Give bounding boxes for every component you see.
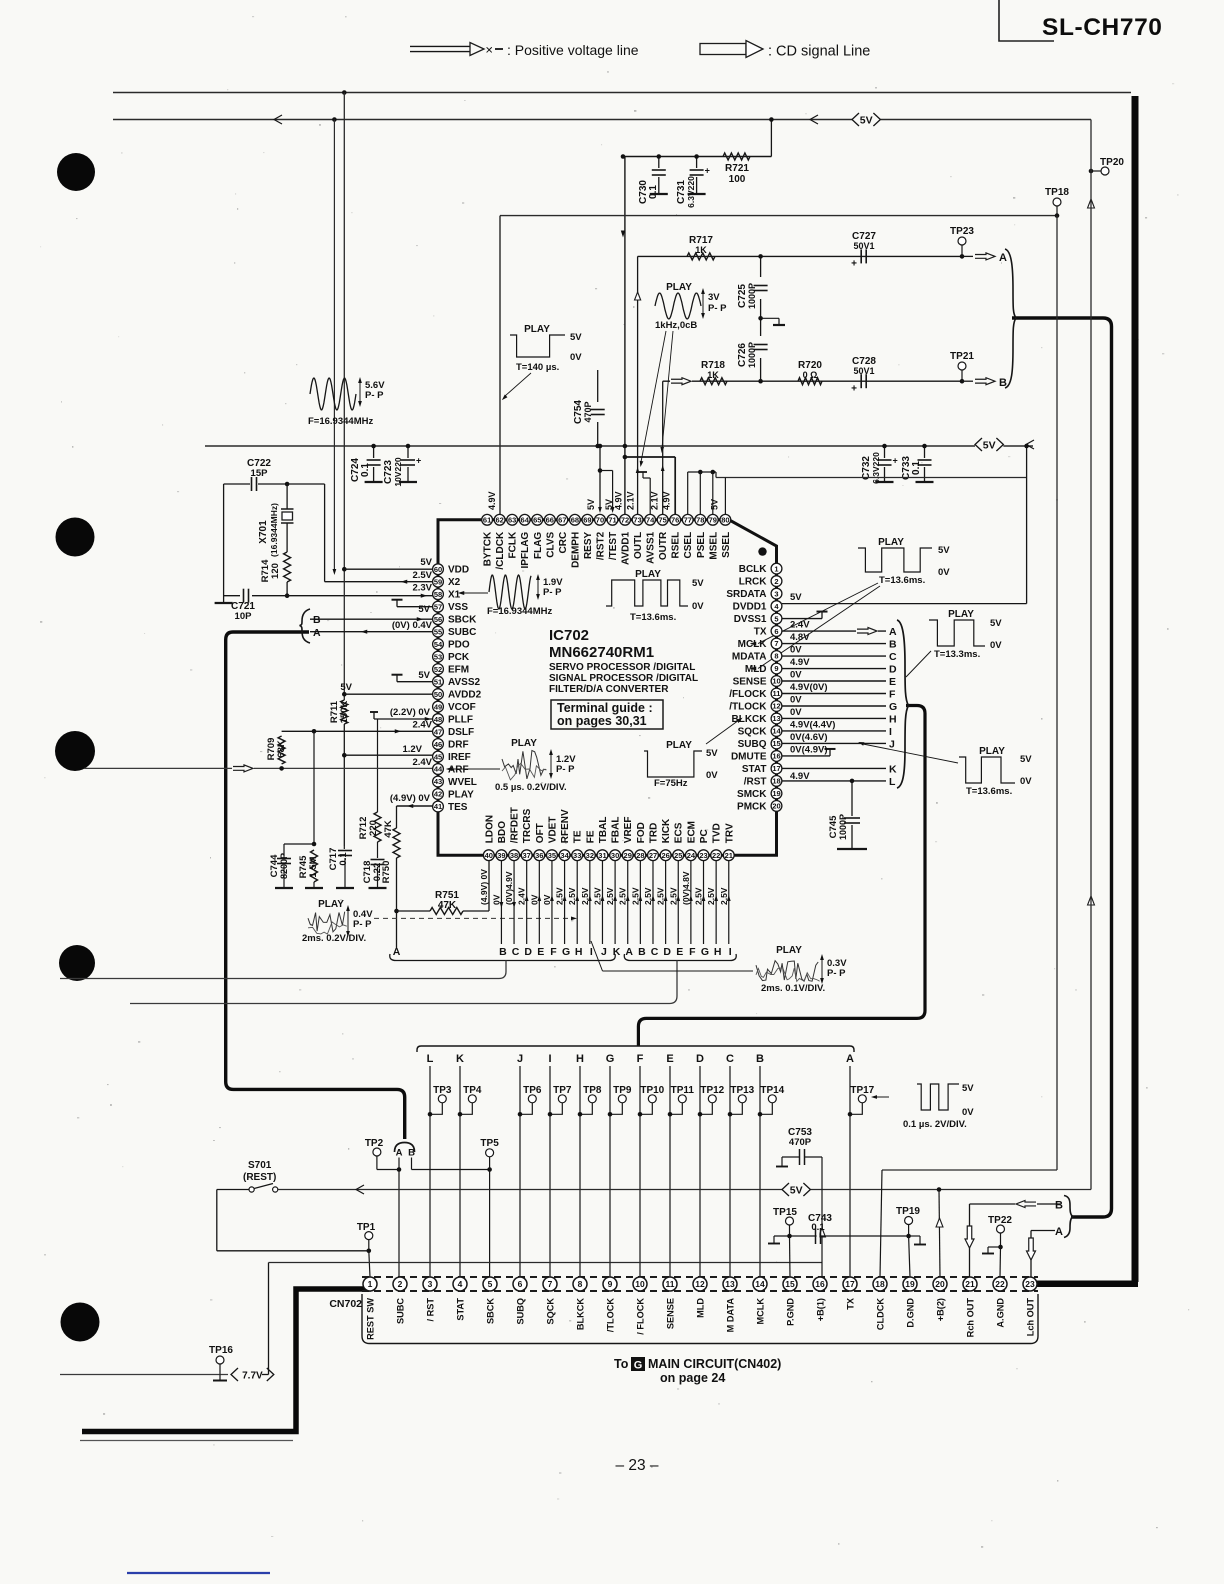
svg-text:63: 63 bbox=[508, 516, 516, 525]
svg-text:TRV: TRV bbox=[724, 823, 735, 843]
svg-text:I: I bbox=[889, 726, 892, 738]
svg-text:5V: 5V bbox=[710, 499, 720, 510]
svg-text:CLVS: CLVS bbox=[545, 531, 556, 557]
svg-text:ARF: ARF bbox=[448, 765, 469, 776]
svg-text:4.9V: 4.9V bbox=[614, 491, 624, 510]
svg-text:60: 60 bbox=[434, 565, 442, 574]
svg-text:74: 74 bbox=[646, 516, 655, 525]
svg-text:/CLDCK: /CLDCK bbox=[495, 531, 506, 570]
svg-text:66: 66 bbox=[546, 516, 554, 525]
svg-text:C: C bbox=[651, 946, 659, 958]
svg-text:EFM: EFM bbox=[448, 665, 469, 676]
svg-text:5V: 5V bbox=[420, 557, 432, 568]
svg-text:2: 2 bbox=[398, 1279, 403, 1289]
svg-text:5V: 5V bbox=[604, 499, 614, 510]
svg-text:5V: 5V bbox=[570, 332, 582, 343]
svg-text:73: 73 bbox=[633, 516, 641, 525]
svg-text:T=13.6ms.: T=13.6ms. bbox=[966, 786, 1012, 797]
svg-text:H: H bbox=[576, 1053, 584, 1065]
svg-text:X701: X701 bbox=[258, 520, 269, 544]
svg-text:5V: 5V bbox=[418, 670, 430, 681]
svg-text:TP9: TP9 bbox=[613, 1085, 632, 1096]
svg-text:5V: 5V bbox=[790, 592, 802, 603]
svg-text:0V: 0V bbox=[790, 670, 802, 681]
svg-text:10: 10 bbox=[772, 677, 780, 686]
svg-text:F: F bbox=[889, 689, 896, 701]
svg-text:B: B bbox=[756, 1053, 764, 1065]
svg-text:SRDATA: SRDATA bbox=[726, 589, 766, 600]
svg-text:2.4V: 2.4V bbox=[412, 757, 432, 768]
svg-text:+B(2): +B(2) bbox=[936, 1298, 946, 1321]
svg-text:52: 52 bbox=[434, 665, 442, 674]
svg-text:0V: 0V bbox=[491, 894, 501, 905]
svg-text:16: 16 bbox=[815, 1279, 825, 1289]
svg-text:2.4V: 2.4V bbox=[517, 887, 527, 905]
svg-text:SL-CH770: SL-CH770 bbox=[1042, 14, 1163, 41]
svg-text:P- P: P- P bbox=[708, 303, 727, 314]
svg-text:D.GND: D.GND bbox=[906, 1298, 916, 1328]
svg-text:5V: 5V bbox=[860, 114, 873, 126]
svg-text:PLAY: PLAY bbox=[666, 282, 692, 293]
svg-text:5: 5 bbox=[774, 614, 778, 623]
svg-text:LDON: LDON bbox=[484, 815, 495, 843]
svg-text:Lch OUT: Lch OUT bbox=[1026, 1298, 1036, 1337]
svg-text:SUBQ: SUBQ bbox=[738, 739, 767, 750]
svg-text:25: 25 bbox=[674, 851, 682, 860]
svg-text:54: 54 bbox=[434, 640, 443, 649]
svg-text:/RST2: /RST2 bbox=[595, 531, 606, 560]
svg-text:2.5V: 2.5V bbox=[555, 887, 565, 905]
svg-text:4.9V(0V): 4.9V(0V) bbox=[790, 682, 828, 693]
svg-text:KICK: KICK bbox=[661, 818, 672, 843]
svg-text:34: 34 bbox=[560, 851, 569, 860]
svg-text:MDATA: MDATA bbox=[732, 652, 767, 663]
svg-text:0V: 0V bbox=[1020, 776, 1032, 787]
svg-text:TES: TES bbox=[448, 802, 468, 813]
svg-text:H: H bbox=[575, 946, 583, 958]
svg-text:TRCRS: TRCRS bbox=[522, 808, 533, 843]
svg-text:BCLK: BCLK bbox=[739, 564, 768, 575]
svg-text:36: 36 bbox=[535, 851, 543, 860]
svg-text:+: + bbox=[893, 456, 898, 466]
svg-text:8: 8 bbox=[578, 1279, 583, 1289]
svg-text:4.9V(4.4V): 4.9V(4.4V) bbox=[790, 719, 835, 730]
svg-text:(REST): (REST) bbox=[243, 1172, 276, 1183]
svg-text:0V: 0V bbox=[990, 640, 1002, 651]
svg-text:56: 56 bbox=[434, 615, 442, 624]
svg-text:61: 61 bbox=[483, 516, 491, 525]
svg-text:A: A bbox=[313, 627, 321, 639]
svg-text:To: To bbox=[614, 1357, 629, 1371]
svg-text:TP23: TP23 bbox=[950, 226, 974, 237]
svg-text:49: 49 bbox=[434, 702, 442, 711]
svg-text:PLAY: PLAY bbox=[666, 740, 692, 751]
svg-text:/RFDET: /RFDET bbox=[510, 807, 521, 843]
svg-text:(0V) 0.4V: (0V) 0.4V bbox=[392, 620, 433, 631]
svg-text:77: 77 bbox=[684, 516, 692, 525]
svg-text:19: 19 bbox=[772, 789, 780, 798]
svg-text:47K: 47K bbox=[438, 900, 457, 911]
svg-text:T=13.6ms.: T=13.6ms. bbox=[879, 575, 925, 586]
svg-text:2ms. 0.1V/DIV.: 2ms. 0.1V/DIV. bbox=[761, 983, 825, 994]
svg-text:11: 11 bbox=[773, 689, 781, 698]
svg-text:G: G bbox=[701, 946, 709, 958]
svg-text:72: 72 bbox=[621, 516, 629, 525]
svg-text:PLAY: PLAY bbox=[448, 790, 474, 801]
svg-text:14: 14 bbox=[772, 727, 781, 736]
svg-text:+: + bbox=[416, 456, 421, 466]
svg-text:2ms. 0.2V/DIV.: 2ms. 0.2V/DIV. bbox=[302, 933, 366, 944]
svg-text:PLAY: PLAY bbox=[776, 945, 802, 956]
svg-text:VCOF: VCOF bbox=[448, 702, 476, 713]
svg-text:B: B bbox=[638, 946, 646, 958]
svg-text:19: 19 bbox=[905, 1279, 915, 1289]
svg-text:2.5V: 2.5V bbox=[694, 887, 704, 905]
svg-text:55: 55 bbox=[434, 627, 442, 636]
svg-text:G: G bbox=[606, 1053, 615, 1065]
svg-text:13: 13 bbox=[772, 714, 780, 723]
svg-text:47: 47 bbox=[434, 727, 442, 736]
svg-text:64: 64 bbox=[521, 516, 530, 525]
svg-text:on pages 30,31: on pages 30,31 bbox=[557, 714, 647, 728]
svg-text:VSS: VSS bbox=[448, 602, 468, 613]
svg-text:VREF: VREF bbox=[623, 817, 634, 844]
svg-text:1000P: 1000P bbox=[747, 283, 757, 309]
svg-text:2.4V: 2.4V bbox=[790, 620, 810, 631]
svg-text:20: 20 bbox=[935, 1279, 945, 1289]
svg-text:2.5V: 2.5V bbox=[567, 887, 577, 905]
svg-text:TP19: TP19 bbox=[896, 1206, 920, 1217]
svg-text:2.5V: 2.5V bbox=[580, 887, 590, 905]
svg-text:5V: 5V bbox=[938, 545, 950, 556]
svg-text:TP6: TP6 bbox=[523, 1085, 542, 1096]
svg-text:G: G bbox=[634, 1360, 643, 1372]
svg-text:H: H bbox=[714, 946, 722, 958]
svg-text:DEMPH: DEMPH bbox=[570, 532, 581, 568]
svg-text:PLLF: PLLF bbox=[448, 715, 473, 726]
svg-text:9: 9 bbox=[774, 664, 778, 673]
svg-text:K: K bbox=[613, 946, 621, 958]
svg-text:FILTER/D/A CONVERTER: FILTER/D/A CONVERTER bbox=[549, 684, 669, 695]
svg-text:15: 15 bbox=[772, 739, 780, 748]
svg-text:CLDCK: CLDCK bbox=[876, 1298, 886, 1331]
svg-text:4.8V: 4.8V bbox=[790, 632, 810, 643]
svg-text:DVSS1: DVSS1 bbox=[734, 614, 767, 625]
svg-text:T=13.6ms.: T=13.6ms. bbox=[630, 612, 676, 623]
svg-text:C: C bbox=[726, 1053, 734, 1065]
svg-text:(0V)4.8V: (0V)4.8V bbox=[681, 871, 691, 905]
svg-text:10: 10 bbox=[635, 1279, 645, 1289]
svg-text:75: 75 bbox=[658, 516, 666, 525]
svg-text:PLAY: PLAY bbox=[979, 746, 1005, 757]
svg-text:0V: 0V bbox=[542, 894, 552, 905]
svg-text:470P: 470P bbox=[583, 401, 593, 422]
svg-text:A: A bbox=[625, 946, 633, 958]
svg-text:1: 1 bbox=[368, 1279, 373, 1289]
svg-text:TP22: TP22 bbox=[988, 1215, 1012, 1226]
svg-text:F: F bbox=[637, 1053, 644, 1065]
svg-text:1000P: 1000P bbox=[838, 814, 848, 840]
svg-text:2.1V: 2.1V bbox=[626, 491, 636, 510]
svg-text:2.4V: 2.4V bbox=[412, 720, 432, 731]
svg-text:DVDD1: DVDD1 bbox=[733, 602, 767, 613]
svg-text:6: 6 bbox=[774, 627, 778, 636]
svg-text:P- P: P- P bbox=[353, 919, 372, 930]
svg-text:VDD: VDD bbox=[448, 565, 469, 576]
svg-text:SERVO PROCESSOR /DIGITAL: SERVO PROCESSOR /DIGITAL bbox=[549, 662, 695, 673]
svg-text:H: H bbox=[889, 713, 897, 725]
svg-text:14: 14 bbox=[755, 1279, 765, 1289]
svg-text:A: A bbox=[846, 1053, 854, 1065]
svg-text:B: B bbox=[499, 946, 507, 958]
svg-text:TP5: TP5 bbox=[480, 1138, 499, 1149]
svg-text:30: 30 bbox=[611, 851, 619, 860]
svg-text:220: 220 bbox=[368, 820, 379, 836]
svg-text:51: 51 bbox=[434, 677, 442, 686]
svg-text:22: 22 bbox=[712, 851, 720, 860]
svg-text:18: 18 bbox=[875, 1279, 885, 1289]
svg-text:SBCK: SBCK bbox=[486, 1298, 496, 1324]
svg-text:3V: 3V bbox=[708, 292, 720, 303]
svg-text:4.9V: 4.9V bbox=[790, 657, 810, 668]
svg-text:/TEST: /TEST bbox=[608, 532, 619, 560]
svg-text:0.1: 0.1 bbox=[648, 185, 659, 199]
svg-text:0V(4.6V): 0V(4.6V) bbox=[790, 732, 828, 743]
svg-text:+B(1): +B(1) bbox=[816, 1298, 826, 1321]
svg-text:E: E bbox=[666, 1053, 673, 1065]
svg-text:0.1: 0.1 bbox=[811, 1222, 825, 1233]
svg-text:IREF: IREF bbox=[448, 752, 471, 763]
svg-text:F=16.9344MHz: F=16.9344MHz bbox=[487, 606, 552, 617]
svg-text:27: 27 bbox=[649, 851, 657, 860]
svg-text:STAT: STAT bbox=[742, 764, 767, 775]
svg-text:38: 38 bbox=[510, 851, 518, 860]
svg-text:J: J bbox=[517, 1053, 523, 1065]
svg-text:41: 41 bbox=[434, 802, 442, 811]
svg-text:80: 80 bbox=[721, 516, 729, 525]
svg-text:4.9V: 4.9V bbox=[661, 491, 671, 510]
svg-text:120: 120 bbox=[270, 563, 281, 579]
svg-text:17: 17 bbox=[845, 1279, 855, 1289]
svg-text:SSEL: SSEL bbox=[721, 532, 732, 558]
svg-text:(16.9344MHz): (16.9344MHz) bbox=[269, 503, 279, 557]
svg-text:FBAL: FBAL bbox=[611, 817, 622, 844]
svg-text:15P: 15P bbox=[251, 468, 269, 479]
svg-text:✕: ✕ bbox=[485, 46, 493, 57]
svg-text:MCLK: MCLK bbox=[756, 1298, 766, 1325]
svg-text:18: 18 bbox=[772, 777, 780, 786]
svg-text:46: 46 bbox=[434, 740, 442, 749]
svg-text:2.5V: 2.5V bbox=[630, 887, 640, 905]
svg-text:C: C bbox=[889, 651, 897, 663]
svg-text:TP17: TP17 bbox=[850, 1085, 874, 1096]
svg-text:5V: 5V bbox=[962, 1083, 974, 1094]
svg-text:TX: TX bbox=[754, 627, 767, 638]
svg-text:31: 31 bbox=[598, 851, 606, 860]
svg-text:2.5V: 2.5V bbox=[719, 887, 729, 905]
svg-text:1000P: 1000P bbox=[747, 342, 757, 368]
svg-text:69: 69 bbox=[583, 516, 591, 525]
svg-text:IC702: IC702 bbox=[549, 627, 589, 644]
svg-text:TRD: TRD bbox=[648, 823, 659, 844]
svg-text:15: 15 bbox=[785, 1279, 795, 1289]
svg-text:5V: 5V bbox=[340, 682, 352, 693]
svg-text:5V: 5V bbox=[990, 618, 1002, 629]
svg-text:59: 59 bbox=[434, 577, 442, 586]
svg-text:1.5M: 1.5M bbox=[308, 856, 319, 877]
svg-text:D: D bbox=[889, 664, 897, 676]
svg-text:E: E bbox=[676, 946, 683, 958]
svg-text:5V: 5V bbox=[706, 748, 718, 759]
svg-text:50V1: 50V1 bbox=[853, 366, 874, 376]
svg-text:53: 53 bbox=[434, 652, 442, 661]
svg-text:OUTR: OUTR bbox=[658, 531, 669, 560]
svg-text:6.3V220: 6.3V220 bbox=[871, 452, 881, 484]
svg-text:0.5 µs. 0.2V/DIV.: 0.5 µs. 0.2V/DIV. bbox=[495, 782, 567, 793]
svg-text:(0V)4.9V: (0V)4.9V bbox=[504, 871, 514, 905]
svg-text:M DATA: M DATA bbox=[726, 1298, 736, 1333]
svg-text:RESY: RESY bbox=[583, 531, 594, 559]
svg-text:/TLOCK: /TLOCK bbox=[729, 701, 767, 712]
svg-text:FLAG: FLAG bbox=[533, 532, 544, 559]
svg-text:S701: S701 bbox=[248, 1160, 272, 1171]
svg-text:PDO: PDO bbox=[448, 640, 470, 651]
svg-text:SUBC: SUBC bbox=[396, 1298, 406, 1324]
svg-text:PLAY: PLAY bbox=[878, 537, 904, 548]
svg-text:SBCK: SBCK bbox=[448, 615, 477, 626]
svg-text:1.2V: 1.2V bbox=[402, 744, 422, 755]
svg-text:P- P: P- P bbox=[365, 390, 384, 401]
svg-text:67: 67 bbox=[558, 516, 566, 525]
svg-text:PSEL: PSEL bbox=[696, 532, 707, 558]
svg-text:2.5V: 2.5V bbox=[618, 887, 628, 905]
svg-text:0V: 0V bbox=[938, 567, 950, 578]
svg-text:0V: 0V bbox=[692, 601, 704, 612]
svg-text:MN662740RM1: MN662740RM1 bbox=[549, 644, 654, 661]
svg-text:A: A bbox=[393, 946, 401, 958]
svg-text:TP18: TP18 bbox=[1045, 187, 1069, 198]
svg-text:DRF: DRF bbox=[448, 740, 469, 751]
svg-text:TP20: TP20 bbox=[1100, 157, 1124, 168]
svg-text:TE: TE bbox=[573, 830, 584, 843]
svg-text:RFENV: RFENV bbox=[560, 809, 571, 843]
svg-text:62: 62 bbox=[495, 516, 503, 525]
svg-text:X1: X1 bbox=[448, 590, 461, 601]
svg-text:0V: 0V bbox=[790, 694, 802, 705]
svg-text:0V: 0V bbox=[529, 894, 539, 905]
svg-text:J: J bbox=[889, 738, 895, 750]
svg-text:1K: 1K bbox=[707, 370, 719, 380]
svg-text:I: I bbox=[548, 1053, 551, 1065]
svg-text:D: D bbox=[696, 1053, 704, 1065]
svg-text:2.5V: 2.5V bbox=[605, 887, 615, 905]
svg-text:B: B bbox=[313, 614, 321, 626]
svg-text:5V: 5V bbox=[692, 578, 704, 589]
svg-text:21: 21 bbox=[725, 851, 733, 860]
svg-text:Terminal guide :: Terminal guide : bbox=[557, 701, 653, 715]
svg-text:SENSE: SENSE bbox=[666, 1298, 676, 1329]
svg-text:17: 17 bbox=[772, 764, 780, 773]
svg-text:A: A bbox=[396, 1148, 403, 1159]
svg-text:A: A bbox=[999, 252, 1007, 264]
svg-text:TP2: TP2 bbox=[365, 1138, 384, 1149]
svg-text:5V: 5V bbox=[790, 1184, 803, 1196]
svg-text:SENSE: SENSE bbox=[733, 677, 767, 688]
svg-text:4: 4 bbox=[458, 1279, 463, 1289]
svg-text:65: 65 bbox=[533, 516, 541, 525]
svg-text:PLAY: PLAY bbox=[635, 569, 661, 580]
svg-text:CSEL: CSEL bbox=[683, 532, 694, 559]
svg-text:1kHz,0cB: 1kHz,0cB bbox=[655, 320, 697, 331]
svg-text:D: D bbox=[663, 946, 671, 958]
svg-text:24: 24 bbox=[687, 851, 696, 860]
svg-text:C: C bbox=[512, 946, 520, 958]
svg-text:AVDD2: AVDD2 bbox=[448, 690, 482, 701]
svg-text:5V: 5V bbox=[983, 439, 996, 451]
svg-text:5V: 5V bbox=[418, 604, 430, 615]
svg-text:E: E bbox=[537, 946, 544, 958]
svg-text:0.1: 0.1 bbox=[338, 852, 349, 866]
svg-text:42: 42 bbox=[434, 790, 442, 799]
svg-text:P- P: P- P bbox=[556, 764, 575, 775]
svg-text:PLAY: PLAY bbox=[948, 609, 974, 620]
svg-text:1: 1 bbox=[774, 564, 778, 573]
svg-text:G: G bbox=[562, 946, 570, 958]
svg-text:79: 79 bbox=[709, 516, 717, 525]
svg-text:10V220: 10V220 bbox=[393, 457, 403, 487]
svg-text:E: E bbox=[889, 676, 896, 688]
svg-text:13: 13 bbox=[725, 1279, 735, 1289]
svg-text:K: K bbox=[456, 1053, 464, 1065]
svg-text:+: + bbox=[705, 166, 710, 176]
svg-text:SIGNAL PROCESSOR /DIGITAL: SIGNAL PROCESSOR /DIGITAL bbox=[549, 673, 698, 684]
svg-text:150K: 150K bbox=[339, 701, 350, 724]
svg-text:50V1: 50V1 bbox=[853, 241, 874, 251]
svg-text:MSEL: MSEL bbox=[708, 532, 719, 560]
svg-text:0.1 µs. 2V/DIV.: 0.1 µs. 2V/DIV. bbox=[903, 1119, 967, 1130]
svg-text:1K: 1K bbox=[695, 245, 707, 255]
svg-text:PC: PC bbox=[699, 829, 710, 843]
svg-text:SQCK: SQCK bbox=[738, 726, 768, 737]
svg-text:TP4: TP4 bbox=[463, 1085, 482, 1096]
svg-text:FE: FE bbox=[585, 830, 596, 843]
svg-text:A: A bbox=[1055, 1226, 1063, 1238]
svg-text:2.5V: 2.5V bbox=[656, 887, 666, 905]
svg-text:0V: 0V bbox=[962, 1107, 974, 1118]
svg-text:+: + bbox=[851, 259, 857, 270]
svg-text:22: 22 bbox=[995, 1279, 1005, 1289]
svg-text:IPFLAG: IPFLAG bbox=[520, 532, 531, 569]
svg-text:35: 35 bbox=[548, 851, 556, 860]
svg-text:RSEL: RSEL bbox=[671, 532, 682, 559]
svg-text:TX: TX bbox=[846, 1297, 856, 1310]
svg-text:(4.9V) 0V: (4.9V) 0V bbox=[390, 793, 431, 804]
svg-text:12: 12 bbox=[772, 702, 780, 711]
svg-text:TP16: TP16 bbox=[209, 1345, 233, 1356]
svg-text:ECM: ECM bbox=[686, 821, 697, 843]
svg-text:B: B bbox=[1055, 1200, 1063, 1212]
svg-text:0V: 0V bbox=[570, 352, 582, 363]
svg-text:J: J bbox=[601, 946, 607, 958]
svg-text:TP13: TP13 bbox=[730, 1085, 754, 1096]
svg-text:+: + bbox=[851, 384, 857, 395]
svg-text:PCK: PCK bbox=[448, 652, 470, 663]
svg-text:STAT: STAT bbox=[456, 1298, 466, 1321]
svg-text:/RST: /RST bbox=[744, 776, 767, 787]
svg-text:58: 58 bbox=[434, 590, 442, 599]
svg-text:0.1: 0.1 bbox=[911, 461, 922, 475]
svg-text:7: 7 bbox=[774, 639, 778, 648]
